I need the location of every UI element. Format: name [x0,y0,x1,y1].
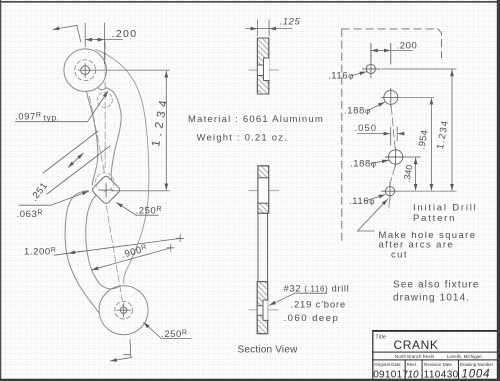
title block divider reel [405,359,406,381]
leader .097R [16,91,109,122]
dashed centerline below D [389,200,390,212]
material note [188,114,324,144]
dim 1.234 extension lines [93,70,170,191]
title block divider revision [422,359,423,381]
dim .251 arrows [68,153,83,167]
svg-text:.116φ: .116φ [328,71,354,82]
dim .340 line [415,158,417,191]
hole C cross [386,148,407,167]
svg-text:Title: Title [376,335,387,341]
page border left [0,0,1,381]
upper web fillet crest [98,88,106,90]
dim 1.234 line right view [451,70,453,191]
page border top [0,1,500,3]
dashed centerline B-C [391,107,395,148]
section centerline bottom hole [249,309,279,311]
dashed centerline C-D [390,167,394,183]
svg-text:North Branch Reels: North Branch Reels [395,354,434,359]
dim .251 extension lines [43,131,110,194]
hole A cross [363,44,381,78]
leader .063R [19,191,89,205]
middle boss hatched body [258,166,269,213]
bottom hole lines [257,300,268,320]
dim .125 arrows [246,28,257,30]
center square boss (rounded diamond) [93,176,120,203]
dim .050 [391,127,398,145]
bottom hole cross [117,304,130,317]
middle boss outline [258,166,269,213]
bottom boss outline [257,282,268,334]
lower web inner edge (.900R) [86,196,121,289]
upper web right edge [107,88,122,181]
top hole lines [257,58,269,81]
page border bottom [0,379,500,381]
svg-text:Revision Date: Revision Date [424,362,453,367]
dim .200 right view [370,44,372,61]
leader .116 dia D [365,195,385,201]
middle square hole lines [258,178,269,204]
top counterbore dashed circle [75,60,96,81]
dashed plate outline [342,29,442,242]
bent datum arrow bottom [110,339,131,361]
dim .954 line [430,98,432,190]
top boss hatched body [257,38,268,94]
fillet construction dashed circle .097R [97,92,112,107]
svg-text:.200: .200 [112,28,138,40]
title block row line 2 [372,359,500,360]
bent datum arrow top left [53,25,81,42]
svg-text:drawing 1014.: drawing 1014. [393,293,470,304]
svg-text:cut: cut [391,250,408,261]
top lobe circle [64,49,107,92]
svg-text:#32 (.116) drill: #32 (.116) drill [284,284,350,295]
bottom counterbore dashed circle [115,301,133,319]
hole B extension line [400,96,434,98]
dashed centerline top hole to boss [90,96,105,172]
svg-text:Reel: Reel [407,362,416,367]
web edges between middle and bottom boss [258,213,268,281]
hole D extension line [399,190,457,192]
hole A extension line [382,68,457,70]
svg-text:.188φ: .188φ [350,159,377,170]
section centerline middle hole [249,190,279,192]
top boss outline [257,38,268,94]
top hole cross [78,63,92,77]
svg-text:Original Date: Original Date [374,362,401,367]
bottom boss hatched body [257,282,268,334]
bottom hole circle [120,307,127,314]
leader .188 dia C [371,160,389,163]
bottom lobe circle [99,286,148,335]
leader .250R boss [117,203,159,216]
title block left border [372,330,373,381]
title block row line 1 [372,352,500,353]
svg-text:.125: .125 [280,17,301,28]
svg-text:.116φ: .116φ [349,196,375,207]
radius line 1.200R with center mark [54,238,180,255]
svg-text:See also fixture: See also fixture [393,280,480,291]
svg-text:Initial Drill: Initial Drill [413,203,478,214]
drill note leader [269,293,327,305]
hole A circle [366,64,375,73]
hole D cross [382,183,399,200]
radius line .900R with center mark [92,248,171,270]
svg-text:after arcs are: after arcs are [379,240,455,251]
dim .200 tail [104,39,122,41]
leader .250R bottom [144,323,192,339]
dim 1.234 line [165,71,167,190]
svg-text:.188φ: .188φ [344,106,371,117]
svg-text:Material : 6061 Aluminum: Material : 6061 Aluminum [188,114,324,125]
svg-text:.050: .050 [355,123,378,134]
svg-text:Section View: Section View [238,345,299,356]
svg-text:Weight : 0.21 oz.: Weight : 0.21 oz. [197,133,289,144]
leader .188 dia B [368,102,385,110]
hole C circle [388,150,402,164]
svg-text:Pattern: Pattern [413,213,456,224]
svg-text:Lovells, Michigan: Lovells, Michigan [447,354,482,359]
upper web left edge [87,91,98,185]
title block top border [372,330,500,332]
svg-text:CRANK: CRANK [394,338,439,352]
boss center cross [99,183,113,197]
section centerline top hole [249,69,279,71]
drilled holes dashed circle at boss [95,173,113,191]
svg-text:.060 deep: .060 deep [284,313,340,324]
hole B cross [382,44,401,107]
svg-text:Drawing Number: Drawing Number [460,362,494,367]
dashed vertical section line [104,42,106,168]
svg-text:.200: .200 [397,41,418,52]
dim .125 extension lines [257,20,269,36]
hole B circle [384,90,398,104]
dim .200 extension lines [85,23,104,64]
title block divider drawing number [458,359,459,381]
lower web outer edge (1.200R) [65,191,99,314]
hole D circle [385,187,394,196]
hole C extension line [406,156,421,158]
make-hole-square leader [358,199,388,231]
page border right [497,0,500,381]
leader .116 dia A [352,72,366,76]
dashed centerline boss to bottom hole [106,206,123,308]
dim .200 arrows [85,39,98,41]
big right arc of crank [96,50,149,284]
top hole circle [81,66,90,75]
svg-text:.219 c'bore: .219 c'bore [291,300,347,311]
